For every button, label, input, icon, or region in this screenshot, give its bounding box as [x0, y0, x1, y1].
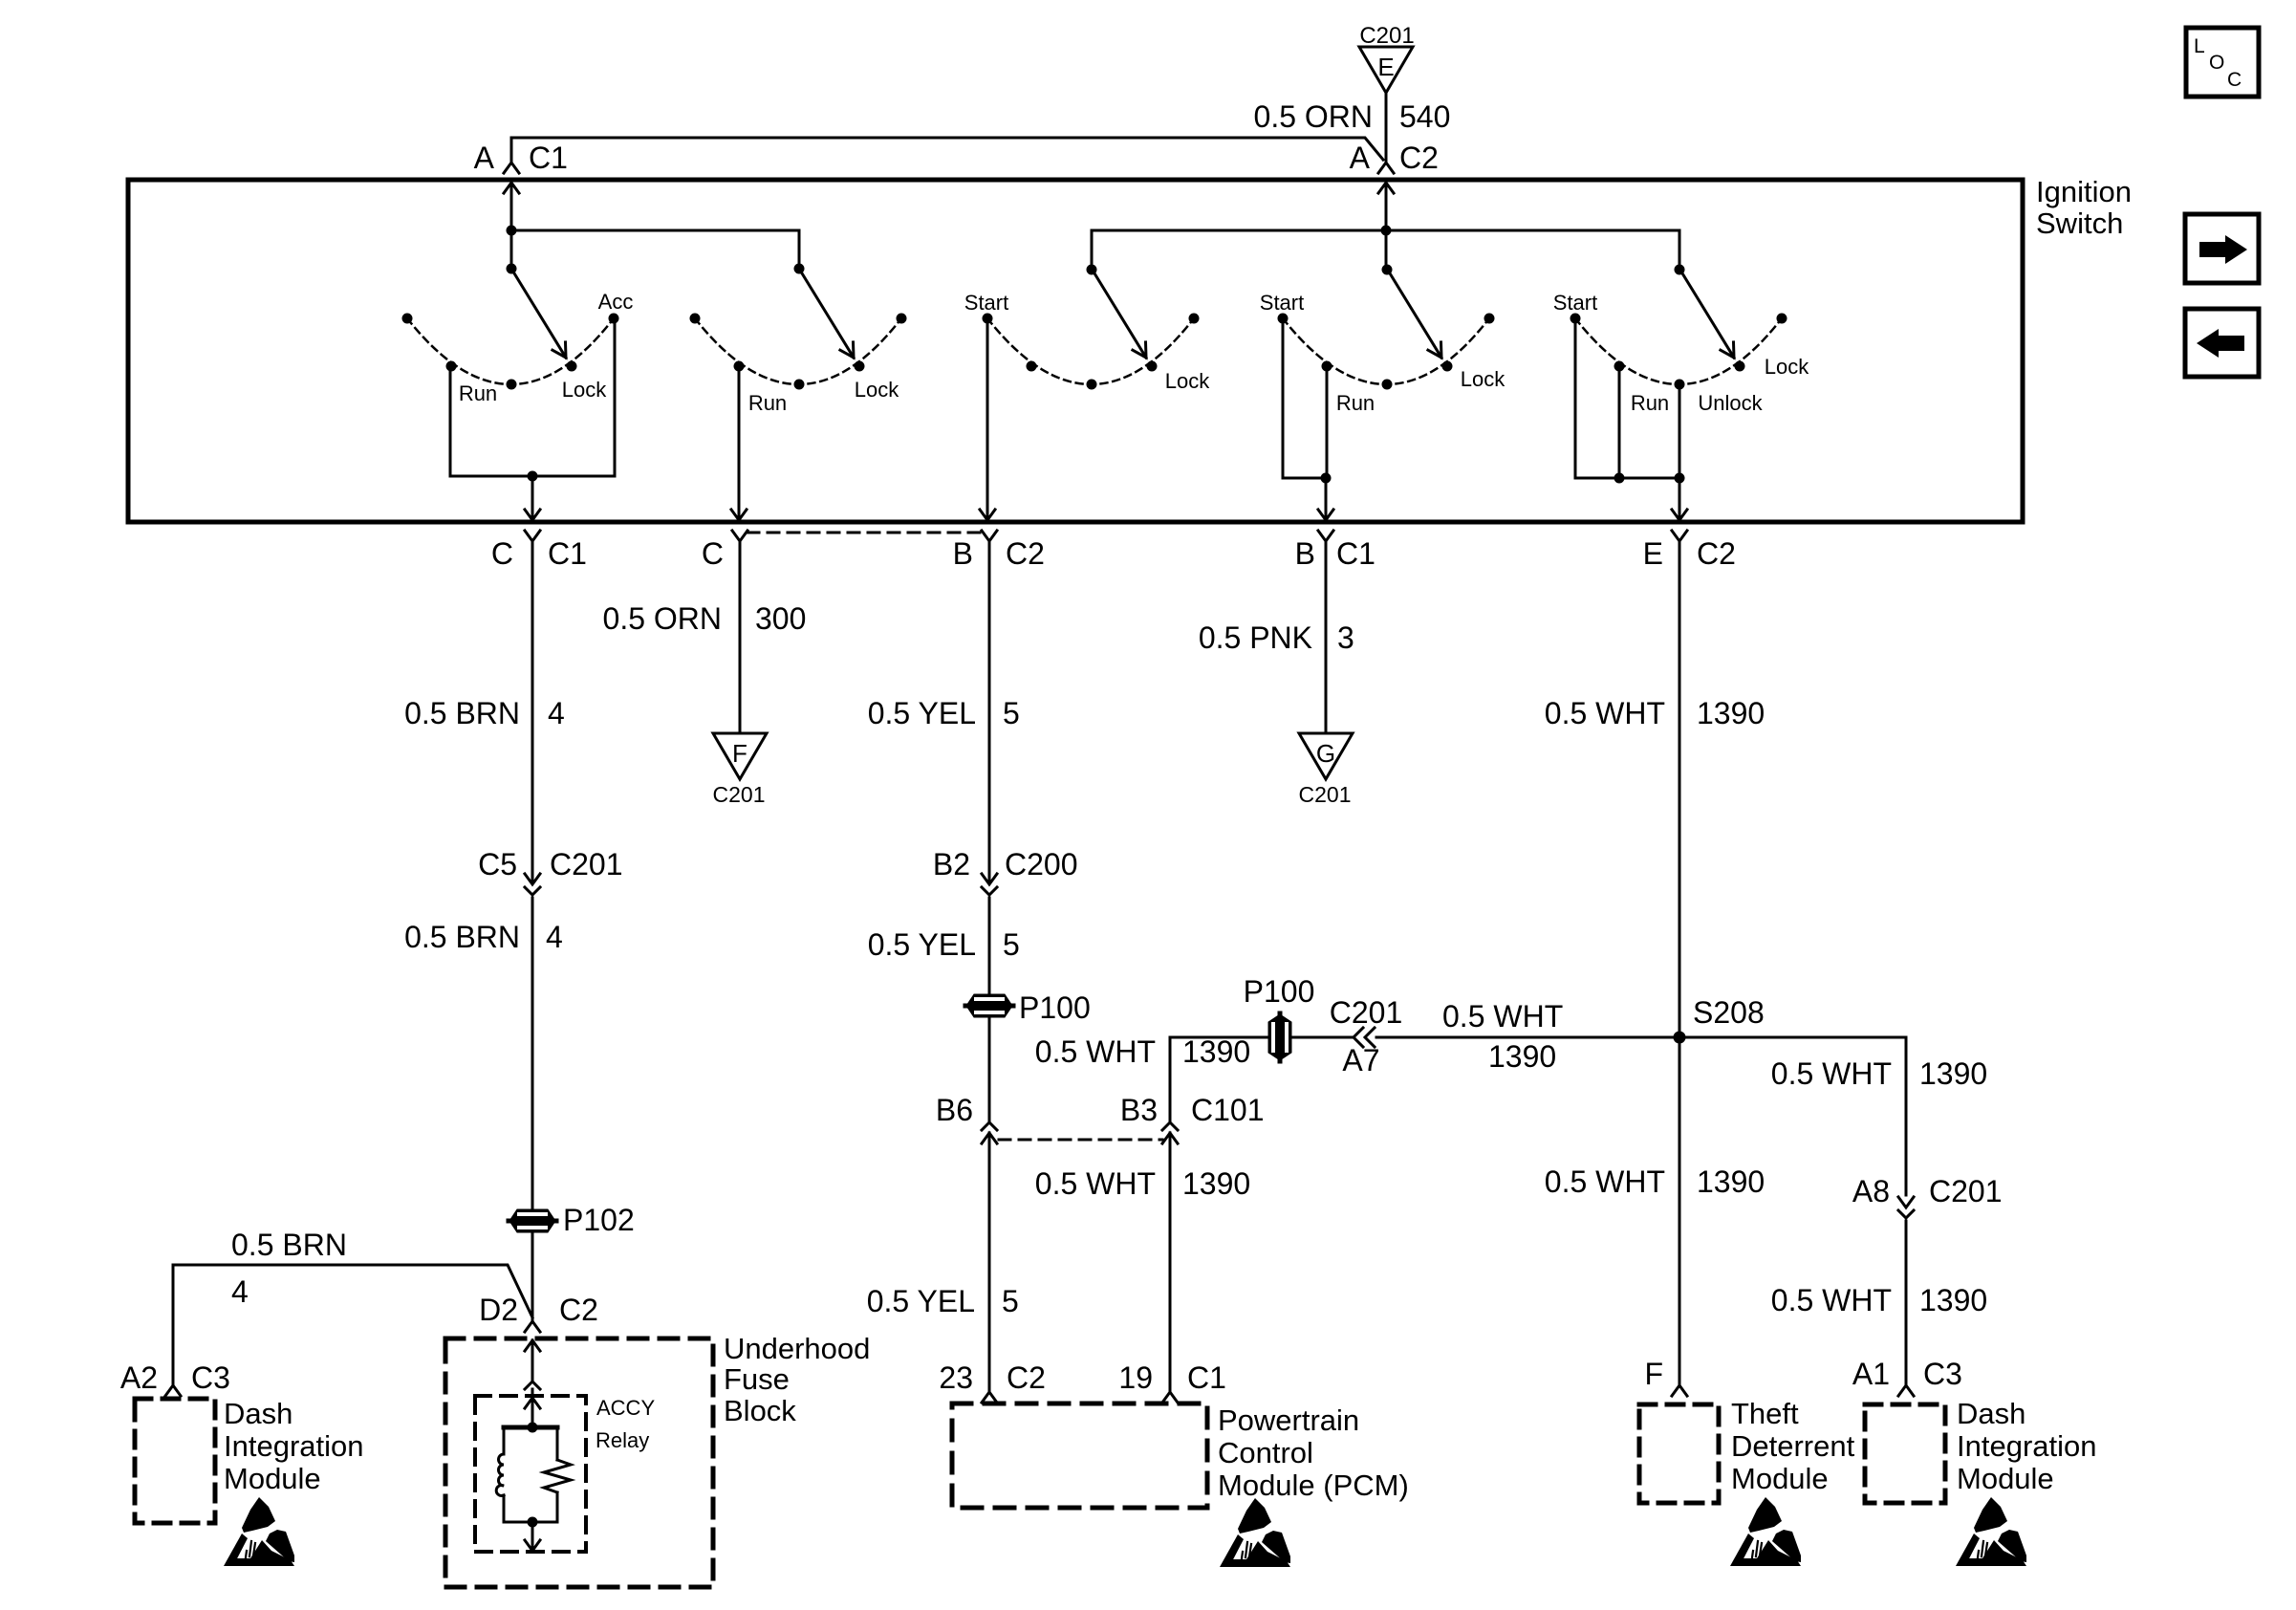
switch pole 1 labels Run Lock Acc [459, 290, 634, 405]
svg-text:4: 4 [546, 920, 563, 954]
svg-text:Module: Module [1731, 1462, 1829, 1495]
svg-text:C2: C2 [559, 1293, 598, 1327]
svg-text:Theft: Theft [1731, 1397, 1799, 1430]
svg-text:A2: A2 [120, 1360, 158, 1395]
svg-text:0.5 WHT: 0.5 WHT [1545, 696, 1665, 730]
svg-text:C201: C201 [1299, 782, 1352, 807]
svg-text:0.5 WHT: 0.5 WHT [1771, 1283, 1892, 1317]
svg-text:C101: C101 [1191, 1093, 1265, 1127]
svg-text:L: L [2194, 35, 2205, 57]
svg-text:Dash: Dash [224, 1397, 292, 1430]
svg-text:C201: C201 [550, 847, 623, 881]
svg-text:Unlock: Unlock [1698, 391, 1763, 415]
wire into accy relay [525, 1398, 540, 1427]
connector E C2 below switch [1643, 531, 1736, 571]
svg-text:0.5 WHT: 0.5 WHT [1545, 1164, 1665, 1199]
svg-text:3: 3 [1337, 620, 1354, 655]
esd symbol pcm [1220, 1498, 1290, 1567]
svg-text:0.5 BRN: 0.5 BRN [231, 1228, 347, 1262]
wire 0.5 BRN 4 upper segment [404, 541, 565, 881]
svg-text:0.5 PNK: 0.5 PNK [1199, 620, 1312, 655]
theft deterrent module box [1639, 1397, 1855, 1503]
svg-text:Run: Run [1336, 391, 1375, 415]
svg-text:0.5 WHT: 0.5 WHT [1035, 1034, 1156, 1069]
wire 0.5 YEL 5 below P100 [988, 1018, 991, 1120]
connector triangle G to C201 [1299, 733, 1353, 807]
wire from C201 A7 to splice P100 [1290, 1036, 1352, 1039]
svg-text:Integration: Integration [1957, 1429, 2097, 1463]
dashed connector link C to B [747, 532, 980, 534]
svg-text:0.5 BRN: 0.5 BRN [404, 696, 520, 730]
connector A1 C3 [1852, 1357, 1962, 1396]
svg-text:C3: C3 [191, 1360, 230, 1395]
switch pole 5 contact arc [1570, 314, 1787, 390]
svg-text:23: 23 [939, 1360, 973, 1395]
connector pin F at theft module [1644, 1357, 1687, 1396]
nav arrow left box [2185, 309, 2259, 377]
powertrain control module box [952, 1403, 1409, 1508]
switch pole 3 contact arc [983, 314, 1200, 390]
wire 0.5 ORN 540 from A C1 to A C2 [511, 99, 1450, 160]
svg-text:Ignition: Ignition [2036, 175, 2132, 208]
svg-text:1390: 1390 [1697, 1164, 1765, 1199]
svg-text:Control: Control [1218, 1436, 1313, 1469]
svg-text:C1: C1 [1336, 536, 1375, 571]
switch pole 5 output wires to E C2 [1575, 318, 1687, 520]
connector C201 A7 [1330, 995, 1403, 1077]
connector pin 19 C1 at PCM [1118, 1360, 1226, 1403]
connector B2 C200 [933, 847, 1078, 895]
svg-text:A: A [1350, 141, 1371, 175]
connector C C1 below switch [491, 531, 587, 571]
connector A8 C201 [1852, 1174, 2003, 1218]
svg-text:0.5 YEL: 0.5 YEL [868, 696, 976, 730]
svg-text:O: O [2209, 52, 2224, 74]
svg-text:C1: C1 [548, 536, 587, 571]
wire feed rail left (A C1 to pole 2) [511, 230, 799, 269]
svg-text:C5: C5 [478, 847, 517, 881]
switch pole 2 labels Run Lock [748, 378, 899, 415]
wire from triangle E to connector A C2 [1385, 93, 1388, 163]
svg-text:540: 540 [1399, 99, 1450, 134]
svg-text:C3: C3 [1923, 1357, 1962, 1391]
connector B3 C101 [1120, 1093, 1265, 1143]
svg-text:0.5 WHT: 0.5 WHT [1771, 1056, 1892, 1091]
svg-text:Lock: Lock [1165, 369, 1210, 393]
svg-text:4: 4 [231, 1274, 249, 1309]
svg-text:B6: B6 [936, 1093, 973, 1127]
svg-text:C: C [491, 536, 513, 571]
connector D2 C2 [479, 1293, 598, 1332]
svg-text:0.5 WHT: 0.5 WHT [1442, 999, 1563, 1033]
splice P100 on white wire [1244, 974, 1315, 1061]
splice node S208 [1674, 995, 1765, 1044]
svg-text:B2: B2 [933, 847, 970, 881]
svg-text:C2: C2 [1697, 536, 1736, 571]
svg-text:Module: Module [1957, 1462, 2054, 1495]
nav arrow right box [2185, 214, 2259, 283]
connector A C1 at ignition switch [474, 138, 568, 175]
wire 0.5 WHT 1390 from S208 down to theft module [1545, 1037, 1765, 1385]
svg-text:Integration: Integration [224, 1429, 364, 1463]
esd symbol right [1956, 1497, 2026, 1566]
switch pole 2 contact arc [690, 314, 907, 390]
svg-text:B: B [1295, 536, 1315, 571]
svg-text:C2: C2 [1006, 536, 1045, 571]
wire into fuse block [525, 1340, 540, 1396]
svg-text:0.5 ORN: 0.5 ORN [603, 601, 722, 636]
svg-text:Start: Start [1260, 291, 1304, 315]
wire 0.5 BRN 4 branch to dash integration module [173, 1228, 532, 1385]
wire feed rail right (pole 3 to pole 5) [1092, 230, 1679, 270]
svg-text:0.5 BRN: 0.5 BRN [404, 920, 520, 954]
connector C5 C201 [478, 847, 622, 895]
esd symbol theft [1730, 1497, 1801, 1566]
switch pole 2 output wire from Run to C [731, 366, 747, 520]
svg-text:300: 300 [755, 601, 806, 636]
svg-text:B3: B3 [1120, 1093, 1158, 1127]
svg-text:A7: A7 [1342, 1043, 1379, 1077]
connector B C2 below switch [953, 531, 1045, 571]
wire 0.5 YEL 5 to splice P100 [868, 898, 1020, 994]
wire 0.5 WHT 1390 from E C2 to S208 [1545, 541, 1765, 1037]
svg-text:Lock: Lock [855, 378, 899, 402]
wire 0.5 WHT 1390 from P100 to B3 corner [1035, 1034, 1269, 1120]
switch pole 4 output wires to B C1 [1283, 318, 1333, 520]
connector pin 23 C2 at PCM [939, 1360, 1046, 1403]
svg-text:C2: C2 [1399, 141, 1439, 175]
svg-text:C: C [702, 536, 724, 571]
wire 0.5 WHT 1390 from S208 left to C201 A7 [1376, 999, 1679, 1074]
svg-text:Switch: Switch [2036, 207, 2123, 240]
svg-text:1390: 1390 [1919, 1283, 1987, 1317]
wire 0.5 BRN 4 middle segment [404, 898, 563, 1208]
switch pole 4 contact arc [1278, 314, 1495, 390]
svg-text:19: 19 [1118, 1360, 1153, 1395]
wire A C1 into switch with arrow [504, 183, 519, 269]
svg-text:Block: Block [724, 1394, 796, 1427]
wire 0.5 YEL 5 to PCM 23 C2 [867, 1133, 1019, 1392]
svg-text:C: C [2227, 69, 2242, 91]
svg-text:A1: A1 [1852, 1357, 1890, 1391]
splice P100 [965, 990, 1091, 1025]
svg-text:Start: Start [964, 291, 1008, 315]
svg-text:Underhood: Underhood [724, 1332, 870, 1365]
dash integration module box left [135, 1397, 364, 1523]
wire 0.5 PNK 3 to ground triangle G [1199, 541, 1354, 733]
switch pole 3 output wire from Start to B C2 [980, 318, 995, 520]
svg-text:Lock: Lock [1765, 355, 1809, 379]
underhood fuse block box [445, 1332, 870, 1587]
accy relay box [475, 1396, 655, 1552]
svg-text:C201: C201 [1929, 1174, 2003, 1208]
svg-text:1390: 1390 [1182, 1166, 1250, 1201]
connector A C2 at ignition switch [1350, 141, 1439, 175]
relay output wire [504, 1517, 557, 1552]
svg-text:0.5 YEL: 0.5 YEL [868, 927, 976, 962]
ignition switch box [128, 180, 2023, 522]
svg-text:F: F [732, 739, 747, 768]
svg-text:Fuse: Fuse [724, 1362, 790, 1396]
svg-text:S208: S208 [1693, 995, 1765, 1030]
svg-text:Run: Run [748, 391, 787, 415]
wire 0.5 WHT 1390 from A8 to A1 C3 [1771, 1221, 1987, 1385]
svg-text:A: A [474, 141, 495, 175]
switch pole 2 pivot and arm [794, 264, 855, 359]
svg-text:Lock: Lock [1461, 367, 1505, 391]
svg-text:Run: Run [459, 381, 497, 405]
switch pole 3 labels Start Lock [964, 291, 1210, 393]
relay resistor [544, 1427, 571, 1522]
svg-text:P102: P102 [563, 1203, 635, 1237]
wire 0.5 WHT 1390 from B3 to PCM 19 C1 [1035, 1133, 1250, 1392]
svg-text:0.5 YEL: 0.5 YEL [867, 1284, 975, 1318]
svg-text:A8: A8 [1852, 1174, 1890, 1208]
switch pole 3 pivot and arm [1087, 265, 1147, 359]
svg-text:0.5 WHT: 0.5 WHT [1035, 1166, 1156, 1201]
svg-text:Run: Run [1631, 391, 1669, 415]
svg-text:P100: P100 [1244, 974, 1315, 1009]
wire 0.5 BRN 4 lower segment to D2 C2 [531, 1232, 534, 1321]
svg-text:Lock: Lock [562, 378, 607, 402]
svg-text:1390: 1390 [1697, 696, 1765, 730]
svg-text:5: 5 [1003, 927, 1020, 962]
svg-text:E: E [1377, 53, 1394, 81]
svg-text:C201: C201 [713, 782, 766, 807]
svg-text:C201: C201 [1330, 995, 1403, 1030]
LOC legend box [2186, 28, 2259, 97]
svg-text:G: G [1316, 739, 1335, 768]
svg-text:1390: 1390 [1182, 1034, 1250, 1069]
svg-text:F: F [1644, 1357, 1663, 1391]
svg-text:C2: C2 [1007, 1360, 1046, 1395]
wire A C2 into switch with arrow [1378, 183, 1394, 270]
svg-text:5: 5 [1002, 1284, 1019, 1318]
svg-text:Powertrain: Powertrain [1218, 1403, 1359, 1437]
label Ignition Switch [2036, 175, 2132, 240]
switch pole 1 pivot and arm [507, 264, 567, 359]
svg-text:E: E [1643, 536, 1663, 571]
connector triangle F to C201 [713, 733, 767, 807]
connector B6 [936, 1093, 997, 1143]
dashed connector link B6 to B3 C101 [999, 1139, 1162, 1142]
svg-text:Module: Module [224, 1462, 321, 1495]
connector C below switch [702, 531, 747, 571]
svg-text:Deterrent: Deterrent [1731, 1429, 1855, 1463]
svg-text:C201: C201 [1359, 23, 1414, 49]
switch pole 4 pivot and arm [1382, 265, 1442, 359]
svg-text:Relay: Relay [596, 1428, 649, 1452]
svg-text:ACCY: ACCY [596, 1396, 655, 1420]
switch pole 1 output wires to C C1 [450, 318, 615, 520]
svg-text:5: 5 [1003, 696, 1020, 730]
svg-text:1390: 1390 [1488, 1039, 1556, 1074]
svg-text:P100: P100 [1019, 990, 1091, 1025]
svg-text:1390: 1390 [1919, 1056, 1987, 1091]
svg-text:C1: C1 [1187, 1360, 1226, 1395]
connector A2 C3 [120, 1360, 230, 1396]
svg-text:B: B [953, 536, 973, 571]
svg-text:4: 4 [548, 696, 565, 730]
switch pole 1 contact arc [402, 314, 619, 390]
switch pole 5 labels Start Run Unlock Lock [1553, 291, 1809, 415]
esd symbol left [224, 1497, 294, 1566]
wire 0.5 YEL 5 upper segment [868, 541, 1020, 881]
switch pole 5 pivot and arm [1675, 265, 1735, 359]
relay coil [496, 1423, 557, 1523]
svg-text:Dash: Dash [1957, 1397, 2025, 1430]
svg-text:C1: C1 [529, 141, 568, 175]
wire 0.5 ORN 300 to ground triangle F [603, 541, 807, 733]
splice P102 [509, 1203, 635, 1237]
svg-text:Acc: Acc [598, 290, 634, 314]
svg-text:C200: C200 [1005, 847, 1078, 881]
svg-text:D2: D2 [479, 1293, 518, 1327]
dash integration module box right [1865, 1397, 2097, 1503]
svg-text:0.5 ORN: 0.5 ORN [1254, 99, 1373, 134]
connector triangle E to C201 [1359, 23, 1415, 93]
wire 0.5 WHT 1390 from S208 right to corner [1679, 1037, 1987, 1195]
svg-text:Start: Start [1553, 291, 1597, 315]
svg-text:Module (PCM): Module (PCM) [1218, 1469, 1409, 1502]
connector B C1 below switch [1295, 531, 1375, 571]
switch pole 4 labels Start Run Lock [1260, 291, 1505, 415]
